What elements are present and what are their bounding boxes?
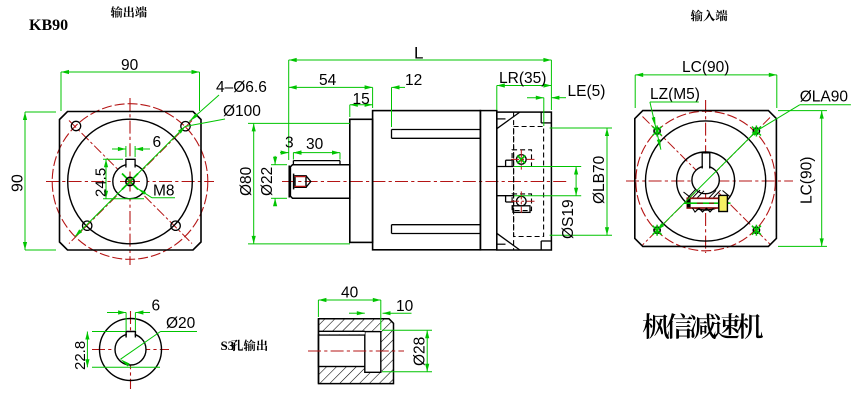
dim: 24.5 (103, 158, 123, 160)
node: input flange section outline (497, 112, 552, 250)
clamp bolt bottom (section) (512, 194, 531, 211)
svg-text:LC(90): LC(90) (799, 157, 816, 204)
svg-text:3: 3 (285, 135, 294, 152)
svg-text:LC(90): LC(90) (682, 59, 729, 76)
node: bolt hole top-left (71, 121, 80, 130)
node: input flange chamfer lines (497, 112, 520, 129)
node: input bolt circle phiLA90 (red dashed) (636, 111, 776, 251)
svg-text:40: 40 (341, 285, 359, 302)
node: output flange bolt circle (phi100, red dashed) (52, 104, 208, 260)
node: adapter ring (480, 111, 496, 250)
dim: 22.8 (92, 331, 126, 333)
label: S3 hole output (CJK) (231, 339, 267, 351)
svg-text:LE(5): LE(5) (568, 83, 606, 100)
node: bolt hole bottom-right (171, 221, 180, 230)
node: output flange boss circle phi80 (68, 119, 193, 244)
node: output flange plate side (350, 119, 373, 242)
svg-text:Ø20: Ø20 (166, 315, 196, 332)
node: input flange pilot step (540, 112, 542, 123)
node: output shaft side (290, 165, 349, 199)
svg-text:ØS19: ØS19 (560, 199, 577, 239)
node: sleeve liner line (319, 332, 365, 334)
dim: 3 (292, 153, 294, 160)
label: Fengxin gearbox brand (CJK) (643, 313, 763, 339)
dim: 30 (339, 153, 341, 160)
dim: LC(90) top (634, 75, 636, 108)
dim: LC(90) right (778, 110, 827, 112)
dim: LE(5) (543, 98, 545, 126)
node: clamp nut (yellow) (719, 195, 728, 211)
dim: 12 (391, 87, 393, 127)
svg-text:Ø80: Ø80 (238, 166, 255, 196)
svg-text:6: 6 (153, 134, 162, 151)
wire: clamp bolt green axis (684, 202, 731, 204)
transistor-like: clamp bolt top (section) (512, 150, 531, 167)
dim: 40 (317, 300, 319, 317)
dim: 10 (349, 312, 365, 314)
node: input flange square (635, 111, 777, 247)
dim: L overall (288, 60, 290, 160)
svg-text:L: L (414, 44, 423, 63)
node: clamp serrations (693, 208, 714, 212)
svg-text:30: 30 (306, 136, 324, 153)
node: output shaft keyway slot (127, 160, 135, 167)
dim: 6 s3 keyway (125, 313, 127, 331)
node: input bore hidden lines (513, 112, 515, 250)
svg-text:KB90: KB90 (29, 17, 68, 34)
node: bolt hole bottom-left (83, 221, 92, 230)
svg-text:15: 15 (353, 91, 370, 108)
svg-text:LZ(M5): LZ(M5) (650, 86, 700, 103)
dim: phiLB70 (550, 127, 612, 129)
dim: phi22 (271, 164, 287, 166)
wire: left view red centerlines (46, 181, 214, 183)
svg-text:54: 54 (319, 72, 337, 89)
dim: phi80 (248, 122, 350, 124)
node: output shaft circle phi22 (113, 164, 147, 198)
dim: 15 (349, 105, 351, 117)
node: gearbox body (373, 111, 481, 250)
dim: 6 keyway width (125, 146, 127, 157)
svg-text:ØLA90: ØLA90 (800, 89, 849, 106)
dim: LR(35) (496, 86, 498, 111)
node: clamp bolt body (red outline) (687, 198, 719, 208)
svg-text:Ø22: Ø22 (259, 167, 276, 196)
svg-text:10: 10 (396, 298, 414, 315)
node: sleeve counterbore (365, 332, 381, 373)
node: input flange bolt holes with markers (654, 128, 660, 134)
svg-text:Ø100: Ø100 (223, 103, 261, 120)
node: output flange square outline (60, 112, 202, 251)
label: input end (CJK) (691, 10, 728, 22)
wire: side view center line (282, 181, 568, 183)
wire: s3 view centerlines (92, 349, 169, 351)
svg-text:6: 6 (152, 298, 161, 315)
svg-text:ØLB70: ØLB70 (591, 155, 608, 204)
node: input boss circle (646, 121, 766, 241)
node: M8 tapped hole section (293, 174, 295, 190)
node: clamp hub section lugs (hatched) (688, 190, 696, 198)
node: M8 center tap marker (122, 174, 138, 190)
dim: phiS19 (514, 166, 581, 168)
svg-text:M8: M8 (153, 183, 175, 200)
svg-text:LR(35): LR(35) (499, 70, 546, 87)
node: s3 sleeve outer circle (100, 319, 162, 381)
dim: 90 top (60, 105, 62, 111)
wire: right view red centerlines (626, 180, 793, 182)
svg-text:90: 90 (10, 174, 27, 192)
svg-text:22.8: 22.8 (72, 341, 89, 370)
node: clamp bolt head cap (688, 200, 691, 207)
node: clamp hub circle (677, 152, 735, 210)
node: sleeve bore (319, 335, 365, 367)
label: output end (CJK) (111, 6, 147, 18)
node: input bore circle S19 (692, 166, 719, 193)
node: bolt hole top-right (181, 122, 190, 131)
svg-text:90: 90 (121, 57, 139, 74)
dim: 54 (372, 87, 374, 108)
wire: sleeve centerline (308, 350, 404, 352)
dim: 90 left (25, 111, 56, 113)
svg-text:12: 12 (405, 72, 422, 89)
node: input keyway slot (703, 154, 709, 168)
node: s3 bore circle phi20 (115, 334, 146, 365)
node: s3 keyway slot (127, 332, 135, 337)
node: shaft collar 30 band (293, 160, 340, 162)
node: input hub section (497, 166, 514, 168)
dim: phi28 (382, 329, 432, 331)
node: coupling sleeve hatched section (319, 319, 394, 384)
svg-text:4–Ø6.6: 4–Ø6.6 (216, 79, 267, 96)
svg-text:24.5: 24.5 (93, 168, 110, 197)
svg-text:Ø28: Ø28 (412, 337, 429, 366)
